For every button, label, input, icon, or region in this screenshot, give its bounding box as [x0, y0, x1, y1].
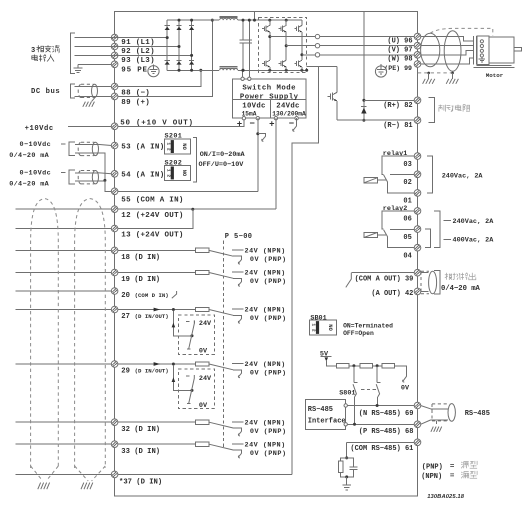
terminal 39: [414, 269, 421, 276]
svg-text:1 2: 1 2: [165, 142, 171, 151]
svg-text:OFF/U=0−10V: OFF/U=0−10V: [199, 161, 245, 169]
motor cable shield dashed top: [430, 28, 493, 35]
PE circled earth symbol: [148, 65, 159, 77]
shield drop 2: [451, 72, 454, 79]
terminal 69: [414, 402, 421, 409]
relay2 coil: [364, 232, 386, 237]
wire R-: [337, 119, 415, 121]
relay2 fixed contact 05: [390, 229, 415, 231]
5V label: [320, 350, 331, 361]
DC bus bracket: [71, 84, 76, 98]
svg-text:=: =: [450, 473, 455, 481]
motor terminal plate: [473, 36, 489, 65]
relay2 400V dash: [444, 238, 452, 240]
terminal 27: [111, 306, 118, 313]
wire 32 to selector: [118, 421, 196, 423]
selector 24V contact 32: [232, 421, 244, 423]
svg-text:RS−485: RS−485: [308, 406, 333, 414]
27 mode dashed box: [179, 315, 215, 355]
wire 89 external: [75, 95, 112, 97]
svg-text:0V (PNP): 0V (PNP): [250, 256, 287, 264]
inverter DC- rail: [259, 69, 307, 71]
terminal 92: [111, 43, 118, 50]
svg-text:−: −: [249, 119, 254, 129]
relay1 coil: [364, 178, 386, 183]
svg-text:*37 (D IN): *37 (D IN): [119, 478, 162, 486]
V output wire: [286, 45, 414, 47]
svg-text:ON: ON: [182, 143, 189, 150]
terminal 98: [414, 52, 421, 59]
svg-text:27: 27: [121, 313, 130, 321]
relay1 contact from 03: [382, 156, 415, 174]
selector wire 29: [209, 364, 233, 370]
motor wire PE: [421, 58, 473, 64]
relay2 bracket 240V: [434, 211, 440, 248]
svg-text:32 (D IN): 32 (D IN): [121, 426, 160, 434]
RS-485 interface box: [305, 400, 345, 430]
motor cable ellipse 1: [421, 33, 440, 67]
brake IGBT: [327, 66, 337, 120]
phase tap L1: [112, 37, 168, 39]
wire 33 external: [16, 443, 112, 445]
wire r1-r2: [349, 365, 360, 367]
wire 18 external: [16, 249, 112, 251]
digital input dashed selector line: [222, 241, 224, 448]
svg-text:S202: S202: [165, 159, 183, 167]
RS-485 box terminals: [344, 404, 347, 426]
svg-text:0−10Vdc: 0−10Vdc: [20, 170, 52, 178]
svg-text:(D IN/OUT): (D IN/OUT): [135, 313, 169, 320]
wire 69: [347, 405, 414, 407]
relay1 bracket: [427, 156, 433, 193]
S801 switch 1: [353, 366, 357, 425]
inline box 29: [195, 362, 209, 366]
terminal 99: [414, 61, 421, 68]
terminal 50: [111, 123, 118, 130]
svg-text:+10Vdc: +10Vdc: [25, 125, 54, 133]
svg-text:(PNP): (PNP): [422, 463, 443, 471]
wire L3 input: [75, 54, 112, 56]
terminal 20: [111, 288, 118, 295]
motor wire U: [421, 37, 473, 41]
svg-text:(V) 97: (V) 97: [387, 47, 412, 55]
svg-text:RS−485: RS−485: [465, 410, 490, 418]
wire 13 internal: [118, 209, 193, 228]
motor wire V: [421, 45, 473, 47]
shield 2 earth hatch: [81, 483, 93, 490]
relay1 common 01: [388, 182, 415, 193]
relay2 240V dash: [444, 220, 452, 222]
wire 29 to selector: [118, 363, 196, 365]
wire +24V to 12/13: [275, 118, 277, 209]
DC- choke inductor: [219, 67, 237, 71]
svg-text:10Vdc: 10Vdc: [242, 103, 265, 111]
terminal 54: [111, 171, 118, 178]
terminal 06: [414, 208, 421, 215]
motor cable ellipse 2: [444, 31, 461, 72]
inline box 19: [195, 270, 209, 274]
svg-text:0/4−20 mA: 0/4−20 mA: [9, 181, 49, 189]
svg-text:93 (L3): 93 (L3): [121, 57, 155, 65]
wire 54 signal: [75, 172, 98, 174]
svg-text:0V (PNP): 0V (PNP): [250, 315, 287, 323]
inline box 27: [195, 307, 209, 311]
svg-text:0V (PNP): 0V (PNP): [250, 450, 287, 458]
svg-text:24V (NPN): 24V (NPN): [245, 441, 286, 449]
terminal 01: [414, 190, 421, 197]
selector hook 18: [238, 259, 241, 264]
svg-text:240Vac, 2A: 240Vac, 2A: [442, 173, 484, 181]
cable 54: [78, 171, 98, 184]
svg-text:−: −: [289, 119, 294, 129]
control cable shield oval 2: [75, 199, 106, 468]
wire 20 external: [16, 290, 112, 292]
terminal 02: [414, 171, 421, 178]
wire 61: [347, 441, 415, 443]
svg-text:1 2: 1 2: [311, 323, 317, 332]
svg-text:(N RS−485) 69: (N RS−485) 69: [359, 410, 414, 418]
shield 2 taper: [75, 466, 106, 481]
motor terminal pins: [479, 40, 485, 62]
label 20 hook: [172, 291, 177, 298]
termination resistor 3: [382, 364, 394, 368]
wire 29 external: [16, 363, 112, 365]
wire R+: [364, 99, 415, 101]
svg-text:19 (D IN): 19 (D IN): [121, 276, 160, 284]
wire 42 stub: [421, 290, 429, 292]
27 mode switch: [186, 320, 195, 349]
terminal 93: [111, 52, 118, 59]
terminal 53: [111, 142, 118, 149]
input earth ground: [74, 64, 83, 72]
selector 24V contact 27: [232, 308, 244, 310]
wire r2-r3: [372, 365, 382, 367]
svg-text:1 2: 1 2: [165, 169, 171, 178]
wire -10V to COM A IN: [257, 118, 259, 191]
NPN sink label: [421, 471, 477, 481]
29 mode switch: [186, 375, 195, 404]
svg-text:(R−) 81: (R−) 81: [383, 122, 412, 130]
analog output label 模拟输出: [445, 273, 476, 280]
selector wire 27: [209, 310, 233, 316]
inverter DC+ rail: [259, 19, 302, 21]
svg-text:(NPN): (NPN): [421, 473, 442, 481]
wire 53 common: [75, 153, 105, 181]
wire 12 internal: [118, 208, 276, 210]
wire L1 input: [75, 37, 112, 39]
SMPS top terminals: [241, 77, 251, 80]
svg-text:24V (NPN): 24V (NPN): [245, 270, 286, 278]
shield ground hatch 2: [446, 79, 449, 84]
selector 24V contact 18: [232, 249, 244, 251]
svg-text:(R+) 82: (R+) 82: [383, 102, 412, 110]
svg-text:0/4−20 mA: 0/4−20 mA: [441, 285, 481, 293]
termination resistor 1: [337, 364, 349, 368]
phase tap L2: [112, 46, 180, 48]
output PE circled earth: [375, 64, 386, 77]
svg-text:89 (+): 89 (+): [121, 99, 150, 107]
IGBT U3 low side: [294, 55, 302, 71]
brake chopper DC+ drop: [363, 12, 365, 101]
svg-text:04: 04: [403, 253, 411, 261]
svg-text:0V (PNP): 0V (PNP): [250, 370, 287, 378]
selector 24V contact 19: [232, 271, 244, 273]
selector wire 19: [209, 273, 233, 279]
S201/S202 bracket: [193, 138, 197, 183]
terminal 68: [414, 421, 421, 428]
svg-text:(COM D IN): (COM D IN): [135, 292, 169, 299]
wire L2 input: [75, 46, 112, 48]
svg-text:DC bus: DC bus: [31, 88, 60, 96]
V output circle: [315, 44, 319, 48]
wire 50 to SMPS +10: [118, 118, 244, 126]
wire 68: [347, 423, 414, 425]
svg-text:OFF=Open: OFF=Open: [343, 330, 374, 337]
terminal 29: [111, 361, 118, 368]
svg-text:130/200mA: 130/200mA: [272, 110, 306, 117]
inline box 33: [195, 442, 209, 446]
svg-text:54 (A IN): 54 (A IN): [121, 172, 164, 180]
wire 32 external: [16, 421, 112, 423]
safe stop wire from gate area: [292, 66, 319, 474]
wire 39 hook: [346, 273, 352, 288]
svg-text:92 (L2): 92 (L2): [121, 48, 155, 56]
svg-text:P 5−00: P 5−00: [225, 233, 253, 241]
svg-text:24V: 24V: [199, 375, 212, 383]
DC+ bus wire: [238, 19, 259, 21]
motor cable shield dashed bottom: [418, 72, 453, 74]
wire 53 signal: [75, 143, 98, 145]
svg-text:relay1: relay1: [383, 150, 407, 158]
wire +10V external: [68, 125, 112, 127]
0V switch hook: [403, 376, 407, 382]
svg-text:(P RS−485) 68: (P RS−485) 68: [359, 428, 414, 436]
svg-text:53 (A IN): 53 (A IN): [121, 143, 164, 151]
RS-485 cable shield ground: [431, 421, 442, 432]
wire 27 external: [16, 309, 112, 311]
brake freewheel diode: [361, 99, 366, 122]
shield 1 taper: [31, 466, 59, 481]
svg-text:Motor: Motor: [486, 72, 504, 79]
svg-text:Switch Mode: Switch Mode: [242, 84, 296, 92]
terminal 88: [111, 83, 118, 90]
S202 dip switch: [164, 166, 190, 181]
-24V switch: [293, 118, 297, 131]
analog output bracket: [434, 270, 440, 294]
terminal 12: [111, 206, 118, 213]
DC+ stub to top border: [254, 12, 256, 21]
termination RC to ground: [338, 442, 357, 490]
selector hook 19: [238, 281, 241, 286]
svg-text:ON/I=0−20mA: ON/I=0−20mA: [200, 151, 246, 159]
common drop to 55: [105, 180, 112, 191]
termination resistor 2: [360, 364, 372, 368]
IGBT U2 high side: [279, 20, 287, 46]
wire 69 cable: [421, 406, 431, 409]
S801 switch 2: [376, 366, 380, 406]
wire 39: [351, 272, 414, 274]
svg-text:12 (+24V OUT): 12 (+24V OUT): [121, 212, 183, 220]
terminal 97: [414, 42, 421, 49]
brake resistor label 制动电阻: [439, 105, 470, 112]
wire 19 to selector: [118, 272, 196, 274]
IGBT U3 high side: [294, 20, 302, 55]
cable 53: [78, 142, 98, 155]
svg-text:(U) 96: (U) 96: [387, 37, 412, 45]
terminal 96: [414, 33, 421, 40]
wire 88 to DC- rail: [118, 70, 201, 86]
svg-text:+: +: [269, 120, 274, 130]
terminal 81: [414, 117, 421, 124]
selector 24V contact 33: [232, 443, 244, 445]
phase tap L3: [112, 54, 192, 56]
svg-text:ON=Terminated: ON=Terminated: [343, 322, 393, 329]
terminal 18: [111, 247, 118, 254]
wire r3 to 0V switch: [394, 366, 406, 377]
wire 54 common: [75, 180, 105, 182]
wire 37 external: [16, 473, 112, 475]
IGBT U2 low side: [279, 46, 287, 71]
inverter dashed box: [259, 18, 307, 73]
svg-text:Interface: Interface: [308, 417, 346, 425]
brake resistor bracket: [428, 98, 434, 123]
inline box 32: [195, 420, 209, 424]
Switch Mode Power Supply box: [233, 79, 306, 118]
wire 37 internal: [118, 473, 292, 475]
terminal 37: [111, 471, 118, 478]
29 feed arrow: [172, 365, 194, 392]
svg-text:(COM RS−485) 61: (COM RS−485) 61: [350, 445, 413, 453]
svg-text:03: 03: [403, 161, 411, 169]
bracket analog input 54: [69, 170, 75, 184]
relay1 fixed contact 02: [390, 174, 415, 176]
5V feed wire: [326, 361, 336, 366]
svg-text:05: 05: [403, 234, 411, 242]
svg-text:(D IN/OUT): (D IN/OUT): [135, 367, 169, 374]
svg-text:24V (NPN): 24V (NPN): [245, 307, 286, 315]
dash to bracket B: [61, 172, 66, 174]
terminal 32: [111, 419, 118, 426]
svg-text:ON: ON: [182, 170, 189, 177]
svg-text:02: 02: [403, 179, 411, 187]
W output circle: [315, 53, 319, 57]
svg-text:18 (D IN): 18 (D IN): [121, 254, 160, 262]
svg-text:0V: 0V: [199, 347, 208, 355]
selector hook 27: [238, 318, 241, 323]
27 feed arrow: [172, 310, 194, 337]
svg-text:29: 29: [121, 368, 130, 376]
svg-text:S801: S801: [339, 389, 355, 397]
motor body: [474, 37, 522, 67]
svg-text:(A OUT) 42: (A OUT) 42: [371, 290, 413, 298]
DC bus shielded cable: [78, 84, 97, 97]
svg-text:3: 3: [31, 47, 35, 55]
svg-text:24Vdc: 24Vdc: [276, 103, 299, 111]
svg-text:0V (PNP): 0V (PNP): [250, 428, 287, 436]
svg-text:=: =: [450, 463, 455, 471]
RS-485 cable: [432, 404, 455, 422]
svg-text:24V (NPN): 24V (NPN): [245, 361, 286, 369]
IGBT U1 high side: [262, 20, 270, 36]
terminal 05: [414, 226, 421, 233]
terminal 04: [414, 244, 421, 251]
terminal 55: [111, 188, 118, 195]
wire 27 to selector: [118, 309, 196, 311]
wire 12 external: [16, 208, 112, 210]
svg-text:24V: 24V: [199, 320, 212, 328]
U output wire: [270, 36, 415, 38]
W output wire: [302, 54, 415, 56]
motor wire W: [421, 50, 473, 54]
svg-text:33 (D IN): 33 (D IN): [121, 448, 160, 456]
selector 24V contact 29: [232, 363, 244, 365]
svg-text:130BA025.18: 130BA025.18: [427, 494, 465, 500]
svg-text:13 (+24V OUT): 13 (+24V OUT): [121, 232, 183, 240]
selector wire 18: [209, 250, 233, 256]
wire 68 cable: [421, 420, 431, 424]
shield ground hatch 1: [423, 79, 426, 84]
terminal 89: [111, 93, 118, 100]
wire 13 external: [16, 228, 112, 230]
svg-text:95 PE: 95 PE: [121, 66, 148, 74]
svg-text:(COM A OUT) 39: (COM A OUT) 39: [355, 275, 414, 283]
svg-text:0−10Vdc: 0−10Vdc: [20, 141, 52, 149]
terminal 82: [414, 97, 421, 104]
wire 19 external: [16, 272, 112, 274]
dash to bracket A: [61, 143, 66, 145]
svg-text:relay2: relay2: [383, 205, 407, 213]
drive enclosure outline: [115, 12, 418, 497]
terminal 19: [111, 269, 118, 276]
svg-text:(W) 98: (W) 98: [387, 56, 412, 64]
selector hook 32: [238, 431, 241, 436]
SMPS DC- feed: [242, 70, 244, 77]
DC bus shield ground hatch: [83, 97, 95, 106]
inline box 18: [195, 248, 209, 252]
svg-text:55 (COM A IN): 55 (COM A IN): [121, 196, 183, 204]
DC+ choke inductor: [219, 16, 237, 20]
wire PE input: [78, 63, 112, 65]
SB01 dip switch: [310, 320, 337, 335]
terminal 13: [111, 225, 118, 232]
svg-text:240Vac, 2A: 240Vac, 2A: [453, 218, 495, 226]
selector wire 32: [209, 422, 233, 428]
wire 18 to selector: [118, 249, 196, 251]
svg-text:+: +: [237, 120, 242, 130]
wire 89 to DC+ rail: [118, 20, 213, 96]
svg-text:0/4−20 mA: 0/4−20 mA: [9, 152, 49, 160]
3-phase input bracket: [71, 33, 76, 73]
relay2 contact from 06: [382, 211, 415, 229]
DC- bus wire: [238, 69, 259, 71]
3-phase input label 3相交流电输入: [31, 45, 60, 61]
S801 dashed link: [361, 389, 376, 391]
svg-text:0V: 0V: [401, 385, 410, 393]
wire 88 external: [75, 86, 112, 88]
control cable shield oval 1: [31, 199, 59, 468]
svg-text:0V (PNP): 0V (PNP): [250, 278, 287, 286]
rectifier bridge: [165, 19, 219, 72]
svg-text:(PE) 99: (PE) 99: [384, 65, 412, 72]
shield drop 1: [427, 72, 430, 79]
DC+ feed to SMPS: [248, 20, 250, 77]
-10V switch: [256, 132, 265, 141]
DC link capacitor: [240, 19, 252, 72]
svg-text:06: 06: [403, 216, 411, 224]
shield 1 earth hatch: [38, 483, 50, 490]
svg-text:400Vac, 2A: 400Vac, 2A: [453, 237, 495, 245]
analog output cable: [421, 271, 437, 294]
